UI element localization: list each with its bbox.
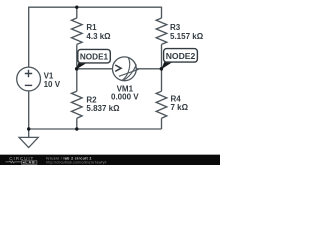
svg-text:5.157 kΩ: 5.157 kΩ [170, 32, 204, 41]
junction dot top R1 [75, 6, 78, 9]
node NODE1 callout [76, 49, 110, 69]
wire R3 top stub [161, 7, 163, 19]
resistor R1 [72, 18, 112, 44]
wire node2 to R4 [161, 69, 163, 92]
wire node1 to voltmeter [77, 68, 113, 70]
svg-text:7 kΩ: 7 kΩ [171, 103, 189, 112]
svg-text:10 V: 10 V [44, 80, 61, 89]
resistor R3 [156, 18, 203, 44]
junction dot ground [27, 127, 30, 130]
resistor R4 [156, 91, 188, 118]
wire left column upper [28, 7, 30, 68]
CircuitLab logo [6, 156, 37, 164]
node NODE2 callout [161, 49, 197, 70]
junction dot R2 bottom [75, 127, 78, 130]
ground [19, 137, 38, 147]
wire R1 top stub [76, 7, 78, 18]
svg-text:http://circuitlab.com/c/8nzru7: http://circuitlab.com/c/8nzru7awfy9 [46, 160, 106, 164]
wire node1 to R2 [76, 69, 78, 92]
svg-text:NODE2: NODE2 [166, 51, 196, 61]
voltmeter VM1 [111, 57, 139, 102]
svg-text:5.837 kΩ: 5.837 kΩ [86, 104, 120, 113]
svg-text:◂LAB: ◂LAB [22, 161, 36, 165]
svg-text:4.3 kΩ: 4.3 kΩ [86, 32, 111, 41]
wire top rail [29, 6, 162, 8]
resistor R2 [72, 91, 121, 118]
wire voltmeter to node2 [136, 68, 161, 70]
wire R1 bottom to node1 [76, 44, 78, 68]
wire R3 bottom to node2 [161, 44, 163, 68]
wire left column lower [28, 91, 30, 129]
voltage source V1 [17, 67, 61, 91]
wire bottom rail [29, 128, 162, 130]
wire R2 bottom stub [76, 118, 78, 129]
junction dot node NODE1 [75, 67, 79, 71]
svg-text:0.000 V: 0.000 V [111, 93, 139, 102]
wire R4 bottom stub [161, 118, 163, 129]
junction dot node NODE2 [160, 67, 164, 71]
svg-text:NODE1: NODE1 [80, 52, 109, 61]
wire ground stem [28, 129, 30, 138]
footer bar [0, 154, 220, 165]
